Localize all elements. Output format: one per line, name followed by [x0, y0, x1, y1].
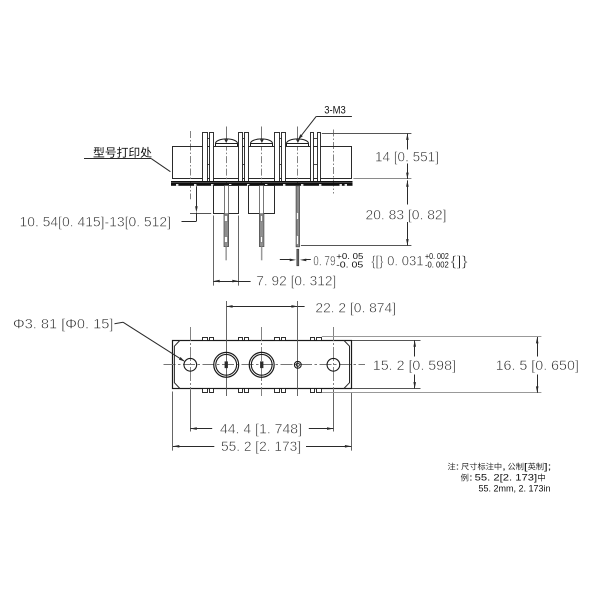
svg-text:Φ3. 81 [Φ0. 15]: Φ3. 81 [Φ0. 15]	[13, 315, 113, 331]
svg-text:0. 79: 0. 79	[313, 253, 335, 269]
shell inner contour right chamfers	[344, 340, 350, 388]
dimension line 44.4	[190, 428, 212, 430]
contact center line 3 (side view)	[297, 127, 299, 140]
dimension line 7.92	[213, 281, 250, 283]
mounting hole right (front view)	[327, 358, 340, 371]
svg-text:[: [	[524, 462, 528, 472]
wafer lock notches pair 4 top	[311, 338, 315, 341]
dimension 55.2 extension lines	[172, 392, 174, 451]
dimension line 22.2	[226, 306, 304, 308]
svg-text::: :	[469, 473, 473, 483]
contact dome 1 (side view)	[216, 139, 238, 147]
svg-text::: :	[456, 462, 460, 472]
note text line 2	[461, 474, 468, 482]
svg-text:55. 2mm, 2. 173in: 55. 2mm, 2. 173in	[479, 484, 551, 494]
contact center line 2 (side view)	[261, 127, 263, 140]
svg-text:-0. 05: -0. 05	[336, 260, 364, 269]
contact shroud wall pair 2 (side view)	[239, 133, 243, 182]
mounting hole center line right (side view)	[333, 130, 335, 194]
svg-text:55. 2 [2. 173]: 55. 2 [2. 173]	[221, 438, 301, 454]
body top edge	[173, 146, 352, 148]
extension line at flange (y=179)	[353, 178, 411, 180]
wafer lock notches pair 1 top	[203, 338, 208, 341]
svg-text:55. 2[2. 173]: 55. 2[2. 173]	[475, 473, 537, 483]
vertical center line left mounting hole (front view)	[190, 327, 192, 390]
power contact 2 (front view)	[249, 352, 274, 377]
contact shroud wall pair 4 (side view)	[311, 133, 314, 182]
dimension line 14/20.83 vertical	[407, 134, 409, 150]
note text line 1 (Chinese)	[448, 463, 456, 470]
contact tip arrow 1	[224, 139, 228, 143]
svg-text:14 [0. 551]: 14 [0. 551]	[375, 148, 439, 164]
vertical center line contact 2 (front view)	[261, 327, 263, 396]
svg-text:7. 92 [0. 312]: 7. 92 [0. 312]	[256, 272, 336, 288]
wafer lock notches pair 2 top	[239, 338, 243, 341]
svg-text:,: ,	[502, 462, 506, 472]
contact center line 1 (side view)	[226, 127, 228, 140]
svg-text:{[} 0. 031: {[} 0. 031	[371, 253, 423, 269]
dimension 7.92 extension lines	[213, 216, 215, 286]
contact tip arrow 2	[260, 139, 264, 143]
dimension line 16.5	[537, 337, 539, 357]
contact dome 3 (side view)	[287, 139, 309, 147]
contact shroud wall pair 3 (side view)	[275, 133, 280, 182]
shell inner contour left chamfers	[174, 340, 180, 388]
contact insulator 2 (below flange)	[249, 186, 275, 214]
horizontal center line (front view)	[164, 364, 366, 366]
connector flange outline (front view)	[173, 341, 352, 389]
svg-text:20. 83 [0. 82]: 20. 83 [0. 82]	[366, 206, 447, 222]
svg-text:{]}: {]}	[450, 253, 468, 269]
power contact 1 slot	[225, 361, 228, 368]
mounting flange plate (side view)	[171, 181, 353, 182]
svg-text:10. 54[0. 415]-13[0. 512]: 10. 54[0. 415]-13[0. 512]	[20, 214, 172, 230]
svg-text:16. 5 [0. 650]: 16. 5 [0. 650]	[496, 357, 579, 373]
connector body (side view)	[173, 147, 352, 179]
solder pin 2	[260, 186, 264, 247]
solder pin 1	[225, 186, 229, 247]
dimension 22.2 extension line / contact 3 center line	[297, 301, 299, 396]
svg-text:-0. 002: -0. 002	[425, 260, 449, 269]
label model printing location (Chinese)	[94, 147, 105, 157]
solder pin 3 (long)	[296, 186, 299, 247]
contact insulator 1 (below flange)	[214, 186, 239, 214]
wafer lock notches pair 3 bottom	[275, 389, 280, 393]
signal contact 3 (front view)	[294, 361, 301, 368]
extension line at shroud top (y=133.5)	[322, 133, 412, 135]
dimension 15.2 extension lines	[352, 340, 421, 342]
svg-text:3-M3: 3-M3	[324, 104, 346, 116]
dimension line 15.2	[414, 340, 416, 356]
dimension 10.54-13 leader	[190, 213, 211, 215]
svg-text:;: ;	[548, 462, 552, 472]
svg-text:22. 2 [0. 874]: 22. 2 [0. 874]	[315, 299, 396, 315]
wafer lock notches pair 2 bottom	[239, 389, 243, 393]
dimension 16.5 extension lines	[322, 336, 542, 338]
extension line at pin level (y=245.5)	[301, 245, 412, 247]
dimension 22.2 extension line / contact 1 center line	[226, 301, 228, 396]
wafer lock notches pair 4 bottom	[311, 389, 315, 393]
power contact 1 (front view)	[214, 352, 239, 377]
contact tip arrow 3	[296, 139, 300, 143]
contact dome 2 (side view)	[251, 139, 273, 147]
contact shroud wall pair 1 (side view)	[203, 133, 208, 182]
dimension 0.79 arrows at pin	[280, 259, 291, 261]
power contact 2 slot	[260, 361, 263, 368]
svg-text:44. 4 [1. 748]: 44. 4 [1. 748]	[220, 420, 302, 436]
wafer lock notches pair 1 bottom	[203, 389, 208, 393]
wafer lock notches pair 3 top	[275, 338, 280, 341]
mounting hole center line left (side view)	[190, 131, 192, 199]
svg-text:15. 2 [0. 598]: 15. 2 [0. 598]	[373, 357, 456, 373]
vertical center line right mounting hole (front view)	[333, 327, 335, 390]
dimension line 55.2	[173, 446, 214, 448]
mounting hole left (front view)	[184, 358, 197, 371]
